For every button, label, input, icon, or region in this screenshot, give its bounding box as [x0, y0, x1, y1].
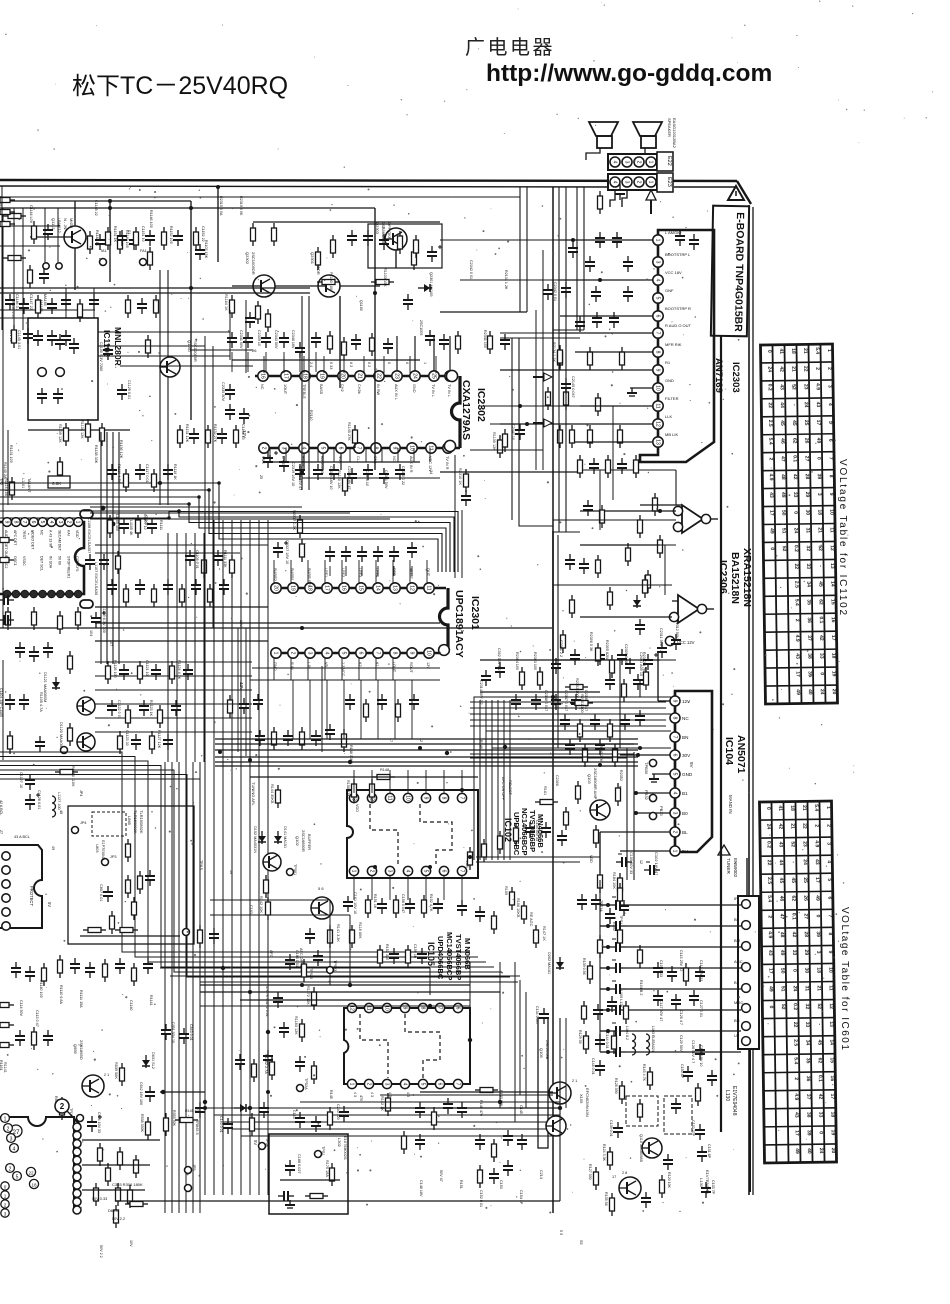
- svg-text:39: 39: [815, 931, 821, 937]
- capacitor CX81: [675, 230, 685, 246]
- wire bus V2 line 5: [240, 520, 242, 1195]
- resistor R177 10: [598, 870, 603, 893]
- resistor G6-5: [422, 895, 427, 918]
- wire h350 mid: [190, 349, 253, 351]
- svg-text:5V: 5V: [253, 1140, 258, 1145]
- IC2302 bottom pin TV IN R: [443, 443, 453, 453]
- svg-text:0: 0: [768, 1006, 774, 1009]
- capacitor G6-2: [377, 898, 387, 914]
- wire IC2302 bottom pin 9 down: [397, 448, 399, 462]
- svg-text:BN: BN: [734, 1018, 740, 1023]
- wire bus C extra1: [160, 967, 430, 969]
- wire IC2301 top pin 9 up: [409, 560, 411, 583]
- svg-text:12V: 12V: [239, 620, 243, 627]
- svg-text:5V: 5V: [47, 902, 52, 907]
- wire g2 x58: [57, 208, 59, 262]
- wire mid rows 2: [95, 675, 252, 677]
- IC2303 pin R AUD O OUT: [653, 328, 663, 338]
- IC102 top pin 8: [439, 793, 448, 802]
- wire g8 h1102: [300, 1101, 560, 1103]
- svg-text:C2335 50V: C2335 50V: [221, 382, 225, 401]
- resistor M3-8: [583, 744, 588, 767]
- svg-text:C2342 0 01: C2342 0 01: [553, 282, 557, 301]
- svg-text:R1164 1K: R1164 1K: [224, 294, 228, 311]
- svg-text:19: 19: [318, 373, 324, 379]
- bottom connector pin 11: [73, 1206, 81, 1214]
- wire bus V3 line 7: [509, 700, 511, 860]
- svg-text:PROTECT: PROTECT: [29, 886, 34, 906]
- capacitor C1104 33P: [5, 694, 15, 710]
- svg-text:9: 9: [827, 951, 833, 954]
- svg-text:4: 4: [404, 870, 410, 873]
- resistor R158 10: [598, 935, 603, 958]
- svg-text:5U: 5U: [682, 849, 688, 854]
- svg-text:C2311 50V 2 2: C2311 50V 2 2: [659, 628, 663, 652]
- svg-text:STOP RELR1: STOP RELR1: [66, 556, 70, 578]
- capacitor CX88: [137, 298, 147, 314]
- svg-text:DET SCL: DET SCL: [40, 556, 44, 571]
- wire tuner cap left 7: [600, 1030, 610, 1032]
- svg-text:24: 24: [793, 528, 799, 534]
- resistor R2349 820: [620, 347, 625, 370]
- capacitor C2328: [623, 256, 633, 272]
- svg-text:AN5071: AN5071: [735, 735, 747, 774]
- IC102 inner dashed switch 2: [420, 804, 452, 864]
- resistor R1122 3.3K: [68, 651, 73, 674]
- resistor edge cut 4: [0, 1023, 14, 1028]
- wire IC2302 bottom pin 10 down: [413, 448, 415, 462]
- IC105 top pin 10: [400, 1003, 409, 1012]
- svg-text:C303 R306 180K: C303 R306 180K: [112, 1182, 143, 1187]
- capacitor C302 50V 2.2: [495, 662, 505, 678]
- capacitor CX64: [457, 1102, 467, 1118]
- svg-text:47: 47: [780, 456, 786, 462]
- IC1102 bottom pin 13: [30, 590, 38, 598]
- resistor edge L1: [0, 198, 15, 203]
- svg-text:C140 0 01: C140 0 01: [219, 1116, 223, 1133]
- capacitor C2324 16V 47: [623, 286, 633, 302]
- wire g1 x205: [204, 336, 206, 500]
- junction tuner 3: [606, 945, 610, 949]
- svg-text:45: 45: [791, 420, 797, 426]
- wire bus V3 line 4: [491, 700, 493, 860]
- wire mid h641: [95, 640, 268, 642]
- wire to Q1160: [339, 296, 341, 388]
- svg-text:R1119 4.7K: R1119 4.7K: [117, 464, 121, 483]
- svg-text:BL: BL: [682, 830, 688, 835]
- resistor R2333 1.2K: [558, 347, 563, 370]
- resistor M3-10: [613, 744, 618, 767]
- svg-text:2: 2: [767, 915, 773, 918]
- junction bus 10: [468, 855, 472, 859]
- wire bus D line 4: [215, 756, 638, 758]
- IC1102 top pin 5: [38, 518, 47, 527]
- wire x520 bottom: [519, 980, 521, 1095]
- svg-text:R161: R161: [543, 786, 547, 795]
- capacitor C1128 0.01: [25, 793, 40, 810]
- connector E23 pin 1: [646, 177, 656, 187]
- capacitor C2320 0.22: [363, 464, 373, 480]
- capacitor C2307 0.1: [325, 546, 335, 562]
- svg-text:10: 10: [827, 967, 833, 973]
- wire IC2302 pin up 3: [433, 336, 435, 371]
- wire IC2302 bottom pin 6 down: [349, 448, 351, 462]
- svg-text:R1111 15A: R1111 15A: [79, 990, 83, 1008]
- svg-text:C132 27P: C132 27P: [691, 1120, 695, 1137]
- svg-text:BF: BF: [734, 917, 740, 922]
- capacitor CX102: [605, 674, 615, 690]
- svg-text:NC: NC: [682, 716, 689, 721]
- svg-text:23: 23: [802, 841, 808, 847]
- wire pair x309: [308, 296, 310, 490]
- capacitor C843 0.01: [179, 1028, 189, 1044]
- bottom connector pin 7: [73, 1173, 81, 1181]
- IC104 pin 12V: [670, 696, 680, 706]
- resistor R109 10KB: [510, 887, 515, 910]
- svg-text:2: 2: [60, 1102, 65, 1111]
- svg-text:21: 21: [789, 823, 795, 829]
- svg-text:C1144 L0V: C1144 L0V: [29, 205, 33, 224]
- svg-text:8: 8: [440, 797, 446, 800]
- svg-text:R135 58: R135 58: [604, 1192, 608, 1206]
- svg-text:30: 30: [804, 510, 810, 516]
- svg-text:C2346 16V: C2346 16V: [291, 330, 295, 349]
- wire long h280: [460, 279, 560, 281]
- wire tuner cap left 4: [600, 967, 610, 969]
- svg-text:C1129 0.01: C1129 0.01: [127, 380, 131, 399]
- wire x213 ext: [212, 500, 214, 628]
- svg-text:24: 24: [818, 1148, 824, 1154]
- transistor Q110: [642, 1138, 662, 1158]
- wire IC2302 top pin 7 up: [383, 356, 385, 373]
- svg-text:2 1: 2 1: [104, 1073, 109, 1077]
- test point TP832: [649, 794, 656, 801]
- wire bus V2 line 7: [258, 520, 260, 1195]
- svg-text:VIDEO DET: VIDEO DET: [31, 530, 35, 550]
- IC2302 bottom pin VBS: [259, 443, 269, 453]
- IC2301 top pin LPF4: [373, 583, 383, 593]
- wire IC2302 pin down 2: [322, 453, 324, 470]
- resistor RX19: [228, 695, 233, 718]
- IC2301 bottom pin VB: [322, 648, 332, 658]
- wire IC104 5U: [620, 850, 670, 852]
- wire drop x218: [217, 187, 219, 262]
- IC2302 top pin BASS: [317, 371, 327, 381]
- junction tuner 6: [606, 1008, 610, 1012]
- resistor C2345 0.047: [570, 425, 575, 448]
- svg-text:16: 16: [340, 585, 346, 591]
- wire g6 x350: [349, 915, 351, 985]
- diode D2301b MA165: [418, 284, 432, 292]
- junction bus D2: [503, 745, 507, 749]
- wire IC2302 bottom pin 3 down: [301, 448, 303, 462]
- svg-text:Q2301 MA165: Q2301 MA165: [429, 272, 433, 297]
- IC2302 right edge with notch: [452, 376, 460, 448]
- capacitor C103 0.33: [577, 894, 587, 910]
- svg-text:22: 22: [28, 1171, 34, 1176]
- wire IC2303 gnd stub: [630, 387, 653, 389]
- tuner connector pin BM: [742, 942, 751, 951]
- resistor M2-1: [106, 661, 111, 684]
- svg-text:MB LIK: MB LIK: [665, 432, 678, 437]
- wire IC2303 input L: [560, 239, 653, 241]
- svg-text:2: 2: [793, 1077, 799, 1080]
- PROTECT IC outline: [0, 845, 42, 928]
- svg-text:21: 21: [816, 985, 822, 991]
- resistor R820b: [83, 928, 106, 933]
- capacitor CX31: [593, 1004, 603, 1020]
- svg-text:C2347 0 047: C2347 0 047: [564, 690, 568, 711]
- wire bus D line 5: [215, 761, 638, 763]
- capacitor T1-6: [173, 230, 183, 246]
- wire bus V3 line 3: [485, 700, 487, 860]
- IC2303 pin R1: [653, 365, 663, 375]
- svg-text:R145 4.7K: R145 4.7K: [642, 1064, 646, 1082]
- connector E23 pin 2: [634, 177, 644, 187]
- resistor R164 10K: [514, 823, 519, 846]
- IC105 bottom pin 4: [400, 1079, 409, 1088]
- capacitor G6-7: [285, 954, 295, 970]
- bottom center block outline: [538, 1018, 548, 1148]
- svg-text:7SC10059R: 7SC10059R: [193, 340, 198, 362]
- svg-text:2 4: 2 4: [309, 362, 313, 367]
- svg-text:CXA1279AS: CXA1279AS: [460, 380, 472, 440]
- wire g6 x330: [329, 900, 331, 985]
- capacitor tuner C123: [610, 960, 626, 973]
- IC2303 pin BOOTSTRP L: [653, 257, 663, 267]
- svg-text:3: 3: [623, 181, 629, 184]
- svg-text:EN59002: EN59002: [733, 858, 738, 878]
- IC102 top pin 9: [421, 793, 430, 802]
- IC102 bottom pin 5: [421, 866, 430, 875]
- resistor R138 10: [618, 883, 623, 906]
- PROTECT pin 4: [2, 894, 10, 902]
- svg-text:L130: L130: [699, 1178, 704, 1188]
- svg-text:MC14066BCP: MC14066BCP: [445, 932, 454, 980]
- resistor C956 50V 2: [106, 1163, 111, 1186]
- wire bus V1 line 6: [199, 762, 201, 1213]
- svg-text:MA165: MA165: [43, 294, 47, 306]
- speaker SP1 leads: [586, 148, 600, 160]
- junction bus D3: [348, 760, 352, 764]
- resistor R1135 33K: [58, 457, 63, 480]
- svg-text:9: 9: [401, 1007, 407, 1010]
- svg-text:5: 5: [671, 773, 677, 776]
- IC2301 bottom pin ROUT: [407, 648, 417, 658]
- svg-text:R142 10K: R142 10K: [259, 896, 263, 913]
- junction IC104 B0: [634, 811, 638, 815]
- svg-text:12: 12: [654, 421, 660, 427]
- IC2302 top pin AUX IN L: [392, 371, 402, 381]
- resistor R262 30K: [118, 1147, 123, 1170]
- svg-text:17: 17: [768, 510, 774, 516]
- svg-text:C150 8P: C150 8P: [680, 1064, 684, 1079]
- wire bus A line 6: [0, 512, 458, 573]
- test point TR15: [77, 1115, 84, 1122]
- wire IC2302 bottom pin 4 down: [317, 448, 319, 462]
- svg-text:49: 49: [814, 895, 820, 901]
- jumper JP4: [72, 827, 79, 834]
- diode D202 MA161: [556, 957, 564, 970]
- IC2303 pin LLK: [653, 419, 663, 429]
- capacitor C112 50V 33: [605, 908, 615, 924]
- wire IC2302 top pin 2 up: [283, 356, 285, 373]
- svg-text:22: 22: [801, 823, 807, 829]
- capacitor R2311 1.2W: [591, 286, 601, 302]
- IC2303 pin FILTER: [653, 401, 663, 411]
- capacitor C140 0.01: [223, 1118, 233, 1134]
- capacitor M3-9: [595, 739, 605, 755]
- wire Q1112 collector: [74, 201, 76, 226]
- svg-text:7: 7: [458, 870, 464, 873]
- svg-text:TREBLE: TREBLE: [302, 384, 306, 399]
- resistor R1162 2.7A: [270, 1057, 275, 1080]
- wire Q1112 emitter: [74, 248, 76, 290]
- capacitor CX24: [377, 694, 387, 710]
- wire drop x375: [374, 208, 376, 470]
- svg-text:5.4: 5.4: [766, 895, 772, 902]
- svg-text:2 1: 2 1: [572, 1079, 577, 1083]
- junction rail2 x191: [189, 206, 193, 210]
- inductor L1127 100: [52, 796, 56, 817]
- resistor RX5: [414, 235, 419, 258]
- svg-text:45: 45: [816, 1040, 822, 1046]
- svg-text:11: 11: [386, 795, 392, 800]
- svg-text:10V: 10V: [129, 1240, 133, 1247]
- svg-text:R120 10K: R120 10K: [667, 1172, 671, 1189]
- resistor R2306 5.3K: [596, 643, 601, 666]
- wire bus V1 line 3: [178, 762, 180, 1213]
- resistor R2305 820A: [610, 655, 615, 678]
- capacitor C2349 0.047: [551, 694, 561, 710]
- svg-text:2SC2058B: 2SC2058B: [545, 1040, 550, 1060]
- capacitor CX63: [443, 1098, 453, 1114]
- svg-text:C148 18V: C148 18V: [419, 1180, 423, 1197]
- capacitor R2313 2.2: [585, 256, 595, 272]
- IC2303 pin L AMGIO: [653, 235, 663, 245]
- IC105 inner dashed switch 2: [405, 1014, 440, 1078]
- svg-text:C807 0.01: C807 0.01: [99, 884, 103, 902]
- capacitor C110: [671, 1098, 681, 1114]
- svg-text:52: 52: [780, 1004, 786, 1010]
- svg-text:24: 24: [429, 470, 433, 474]
- capacitor tuner C122: [610, 939, 626, 952]
- svg-text:R2332 4 7K: R2332 4 7K: [642, 652, 646, 672]
- wire long h406: [480, 405, 580, 407]
- tuner connector pin AGC: [742, 963, 751, 972]
- svg-text:62: 62: [818, 599, 824, 605]
- svg-text:UPC1891ACY: UPC1891ACY: [453, 590, 465, 658]
- voltage table for IC1102: [760, 344, 837, 704]
- capacitor C1129 0.01: [117, 384, 127, 400]
- IC1102 coil tab bottom L1107: [80, 600, 93, 608]
- svg-text:R118 60K: R118 60K: [358, 922, 362, 939]
- svg-text:JP4: JP4: [80, 821, 87, 825]
- svg-text:C240 120: C240 120: [336, 1104, 340, 1120]
- svg-text:5: 5: [319, 447, 325, 450]
- svg-text:4.9: 4.9: [815, 383, 821, 390]
- resistor M4-2: [78, 299, 83, 322]
- wire IC2301 bottom pin 6 down: [358, 658, 360, 680]
- junction IC2303 input: [571, 238, 575, 242]
- wire h505 left: [90, 506, 302, 508]
- IC1102 top pin 2: [65, 518, 74, 527]
- svg-text:R1105 4.7A: R1105 4.7A: [39, 692, 43, 712]
- wire x455 pair: [454, 455, 456, 578]
- svg-text:4: 4: [611, 161, 617, 164]
- wire IC102 pin0 down: [353, 876, 355, 900]
- resistor T1-5: [162, 227, 167, 250]
- svg-text:C1146 3.3: C1146 3.3: [15, 294, 19, 311]
- svg-text:FA1: FA1: [140, 249, 147, 253]
- svg-text:12: 12: [829, 545, 835, 551]
- svg-text:6: 6: [337, 447, 343, 450]
- IC1102 body outline: [0, 522, 84, 594]
- capacitor C2326 0.047: [612, 232, 622, 248]
- resistor R2331 100K: [561, 630, 566, 653]
- resistor RX4: [398, 231, 403, 254]
- wire bus D line 6: [215, 765, 638, 767]
- transistor Q2302: [253, 275, 275, 297]
- svg-text:27: 27: [804, 456, 810, 462]
- svg-text:C304 10V 33: C304 10V 33: [97, 1112, 101, 1133]
- svg-text:L1105 100: L1105 100: [115, 514, 119, 531]
- svg-text:AUDIO DET OUT: AUDIO DET OUT: [4, 530, 8, 559]
- svg-text:43 A BCL: 43 A BCL: [14, 835, 30, 839]
- svg-text:C1128 0.01: C1128 0.01: [37, 790, 41, 809]
- wire x66 drop: [65, 288, 67, 318]
- IC2302 top pin TV IN L: [445, 371, 455, 381]
- IC2301 bottom pin L IN: [305, 648, 315, 658]
- svg-text:5: 5: [39, 521, 45, 524]
- resistor R141 3.3K: [328, 925, 333, 948]
- svg-text:TV IN R: TV IN R: [445, 456, 449, 470]
- resistor edge cut 3: [0, 1003, 14, 1008]
- IC2302 bottom pin BALANCE: [318, 443, 328, 453]
- capacitor M2-6: [183, 664, 193, 680]
- resistor RX62: [432, 1107, 437, 1130]
- capacitor M3-6: [635, 710, 645, 726]
- svg-text:R1111: R1111: [159, 520, 163, 530]
- svg-text:C117 50V 47: C117 50V 47: [659, 1000, 663, 1021]
- svg-text:50: 50: [779, 968, 785, 974]
- svg-text:D202 MA161: D202 MA161: [547, 952, 551, 974]
- IC2303 pin GNF: [653, 293, 663, 303]
- wire opampA feedback: [640, 504, 682, 506]
- IC102 bottom pin 7: [457, 866, 466, 875]
- svg-text:R184 10K: R184 10K: [612, 872, 616, 889]
- svg-text:RELECT: RELECT: [508, 780, 512, 796]
- svg-text:C126 50V 4 7: C126 50V 4 7: [691, 1040, 695, 1063]
- IC2301 top pin BURR1: [288, 583, 298, 593]
- svg-text:TUNER: TUNER: [726, 858, 731, 875]
- outer boundary line B: [752, 207, 754, 1195]
- IC2302 top pin CH2b: [355, 371, 365, 381]
- svg-text:170 7K C1172 0.01: 170 7K C1172 0.01: [265, 986, 269, 1017]
- svg-text:17: 17: [767, 968, 773, 974]
- svg-text:VOLtage Table for IC1102: VOLtage Table for IC1102: [837, 459, 848, 617]
- svg-text:42: 42: [791, 932, 797, 938]
- svg-text:L AMGIO: L AMGIO: [665, 230, 681, 235]
- resistor R2308 12K: [300, 539, 305, 562]
- IC104 pin B0: [670, 808, 680, 818]
- resistor T1-7: [194, 227, 199, 250]
- wire x246 mid: [245, 628, 247, 756]
- svg-text:2: 2: [9, 1167, 12, 1173]
- wire IC2301 bottom pin 5 down: [341, 658, 343, 680]
- capacitor M2-2: [119, 664, 129, 680]
- capacitor G5-1: [500, 334, 510, 350]
